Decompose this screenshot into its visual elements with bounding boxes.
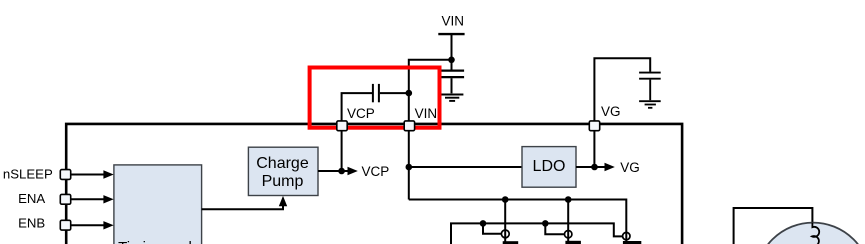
node junction dot bus 1 (502, 196, 509, 203)
wire VG pin up to capacitor (594, 58, 650, 121)
block LDO (522, 147, 576, 188)
node VIN supply label (442, 13, 465, 28)
svg-text:VG: VG (601, 104, 621, 119)
transistor Q1 source bar (503, 241, 519, 244)
wire LDO output (576, 166, 606, 168)
svg-text:Charge: Charge (256, 155, 309, 172)
arrowhead into charge pump (279, 196, 287, 206)
capacitor C3 VG bypass (639, 73, 661, 101)
wire drain drop transistor Q1 (504, 200, 506, 242)
wire VCP pin down to charge pump output (341, 131, 343, 171)
svg-text:nSLEEP: nSLEEP (3, 167, 53, 182)
pin ENB (60, 220, 70, 230)
svg-text:VIN: VIN (442, 13, 465, 28)
wire gate-drive lower bus (451, 223, 623, 244)
node junction dot at VIN supply (448, 57, 455, 64)
pin ENA (60, 194, 70, 204)
wire VIN to LDO input (409, 166, 522, 168)
pin input arrow nSLEEP (71, 170, 114, 178)
svg-text:LDO: LDO (533, 158, 566, 175)
transistor Q3 source bar (623, 241, 641, 244)
node junction dot bus 2 (565, 196, 572, 203)
pin input arrow ENA (71, 195, 114, 203)
motor wire left terminal (734, 208, 813, 244)
capacitor C2 charge-pump flying cap (373, 84, 379, 102)
transistor Q3 gate circle (623, 232, 630, 239)
annotation red highlight box (310, 68, 440, 128)
block charge pump (248, 147, 318, 195)
power rail VIN bar (438, 34, 464, 60)
node junction dot VIN internal (406, 164, 413, 171)
ground under C3 (639, 101, 661, 108)
pin nSLEEP (60, 170, 70, 180)
svg-text:Timing and: Timing and (118, 239, 192, 244)
svg-text:VIN: VIN (415, 106, 438, 121)
wire gate lead Q1 (483, 223, 501, 233)
node junction dot VCP (338, 168, 345, 175)
wire flying cap to VIN net (380, 92, 409, 94)
arrowhead VCP out (348, 167, 358, 175)
motor winding coil (812, 223, 819, 244)
svg-text:ENB: ENB (18, 215, 45, 230)
motor M1 body (756, 223, 865, 244)
arrowhead VG out (605, 163, 615, 171)
transistor Q2 source bar (565, 241, 581, 244)
capacitor C1 VIN bulk (440, 71, 464, 94)
wire VIN supply to VIN pin drop (409, 60, 452, 121)
ground under C1 (441, 95, 464, 101)
svg-text:VCP: VCP (362, 164, 390, 179)
wire charge pump output (318, 170, 349, 172)
block digital core (114, 165, 202, 244)
pin input arrow ENB (71, 221, 114, 229)
wire VIN pin internal drop (408, 131, 410, 200)
node junction dot gate bus 1 (480, 220, 487, 227)
svg-text:VCP: VCP (347, 106, 375, 121)
transistor Q2 gate circle (565, 231, 572, 238)
wire internal VIN bus to output stage (409, 200, 627, 243)
svg-text:VG: VG (620, 160, 640, 175)
wire digital core to charge pump (202, 204, 283, 209)
transistor Q1 gate circle (501, 230, 509, 238)
wire VIN supply down to capacitor (451, 60, 453, 70)
wire VCP pin up to flying capacitor (342, 93, 372, 121)
device boundary (66, 124, 682, 244)
pin VIN (404, 121, 414, 131)
svg-text:Pump: Pump (262, 173, 304, 190)
wire VG pin down to LDO output node (593, 131, 595, 167)
node junction dot flying cap / VIN (406, 90, 413, 97)
svg-text:ENA: ENA (18, 191, 45, 206)
pin VCP (337, 121, 347, 131)
pin VG (589, 121, 599, 131)
wire gate lead Q2 (545, 223, 564, 234)
node junction dot VG (591, 164, 598, 171)
wire drain drop transistor Q2 (567, 200, 569, 242)
node junction dot gate bus 2 (542, 220, 549, 227)
